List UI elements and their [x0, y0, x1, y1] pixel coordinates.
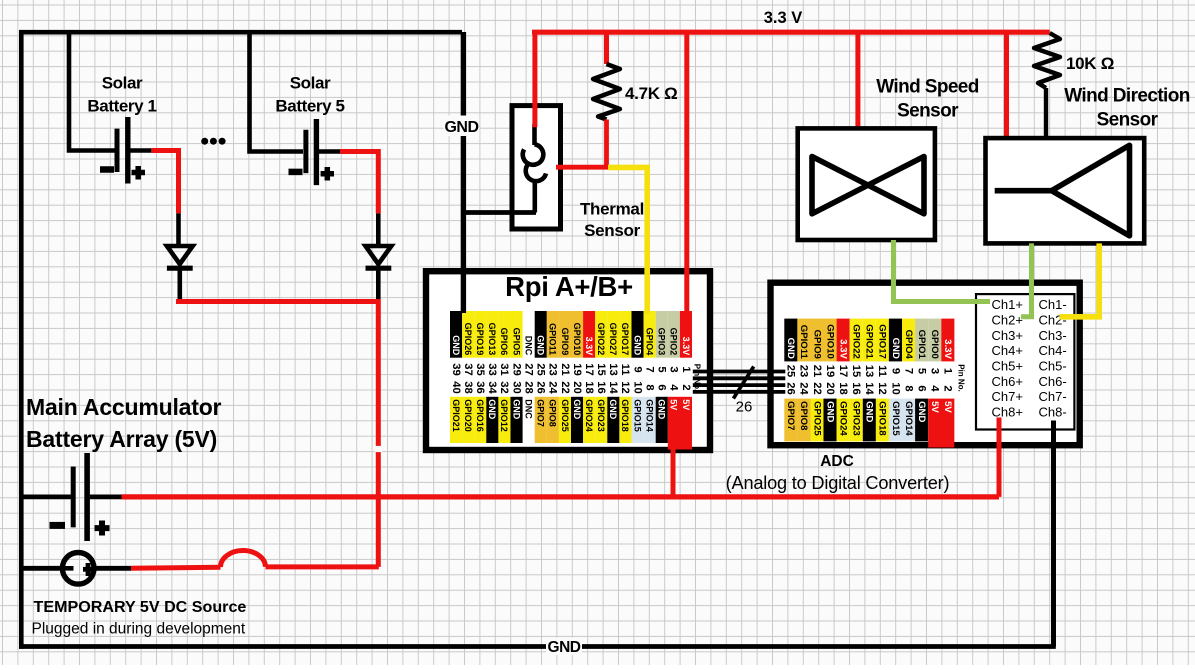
Rpi pin 37 GPIO26 block: [462, 311, 474, 358]
svg-text:GND: GND: [916, 401, 927, 422]
svg-text:GPIO24: GPIO24: [584, 399, 594, 432]
svg-text:ADC: ADC: [820, 453, 854, 470]
wire: rail drop to 4.7K resistor (red): [604, 32, 609, 64]
svg-text:20: 20: [571, 381, 583, 393]
thermal sensor box: [512, 106, 561, 229]
svg-text:GND: GND: [608, 399, 618, 420]
wire: left border (negative bus): [19, 30, 24, 649]
svg-text:GND: GND: [487, 399, 497, 420]
Rpi pin 10 GPIO15 block: [632, 397, 644, 443]
wire: ADC Ch8- to GND bus (black): [1051, 421, 1056, 647]
ellipsis dots between solar batteries: [201, 138, 208, 145]
svg-text:21: 21: [559, 363, 571, 375]
Rpi pin 9 GND block: [632, 311, 644, 358]
svg-text:Ch7-: Ch7-: [1039, 389, 1067, 404]
wire: wind direction output (green) to ADC Ch2+: [1021, 243, 1032, 316]
Rpi pin 33 GPIO13 block: [486, 311, 498, 358]
svg-text:GPIO13: GPIO13: [487, 323, 497, 356]
svg-text:12: 12: [619, 381, 631, 393]
wire: top border (solar negative bus): [19, 30, 462, 35]
wire: solar battery 1 positive (red): [151, 151, 178, 214]
svg-text:GPIO3: GPIO3: [657, 328, 667, 356]
ADC pin 9 GND block: [889, 319, 902, 362]
svg-text:Ch4+: Ch4+: [992, 343, 1023, 358]
Rpi pin 30 GND block: [511, 397, 523, 443]
svg-text:34: 34: [486, 381, 498, 394]
svg-text:GPIO17: GPIO17: [877, 324, 888, 359]
svg-text:37: 37: [462, 363, 474, 375]
svg-text:3: 3: [929, 368, 941, 374]
svg-text:15: 15: [850, 365, 862, 377]
svg-text:Ch6-: Ch6-: [1039, 374, 1067, 389]
Rpi pin 20 GND block: [571, 397, 583, 443]
resistor R1 4.7K: [593, 64, 620, 120]
ADC pin 18 GPIO24 block: [837, 399, 850, 442]
svg-text:Wind Direction: Wind Direction: [1064, 86, 1189, 107]
svg-text:6: 6: [656, 384, 668, 390]
wire: solar bus down to 5V rail and temp source (red): [376, 299, 381, 567]
svg-text:22: 22: [559, 381, 571, 393]
Rpi pin 34 GND block: [486, 397, 498, 443]
svg-text:GPIO21: GPIO21: [864, 324, 875, 359]
ADC pin 6 GND block: [915, 399, 928, 442]
svg-text:GND: GND: [444, 119, 478, 136]
svg-text:32: 32: [498, 381, 510, 393]
svg-text:Sensor: Sensor: [584, 221, 641, 240]
svg-text:Ch8+: Ch8+: [992, 405, 1023, 420]
Rpi pin 24 GPIO8 block: [547, 397, 559, 443]
svg-text:8: 8: [643, 384, 655, 390]
svg-text:GPIO23: GPIO23: [596, 399, 606, 432]
svg-text:Solar: Solar: [290, 74, 331, 93]
svg-text:Battery 5: Battery 5: [275, 97, 344, 116]
Rpi pin 36 GPIO16 block: [474, 397, 486, 443]
wire: ADC Ch8+ to 5V rail (red): [997, 418, 1002, 497]
svg-text:GPIO19: GPIO19: [475, 323, 485, 356]
Rpi pin 23 GPIO11 block: [547, 311, 559, 358]
Rpi pin 31 GPIO6 block: [498, 311, 510, 358]
svg-text:5V: 5V: [669, 399, 679, 410]
svg-text:GPIO16: GPIO16: [475, 399, 485, 432]
wire: solar battery 5 negative drop: [250, 32, 304, 152]
svg-text:25: 25: [535, 363, 547, 375]
wire: 4.7K to thermal junction (red): [604, 120, 609, 168]
Rpi pin 4 5V block: [668, 397, 692, 450]
svg-text:31: 31: [498, 363, 510, 375]
ADC pin 11 GPIO17 block: [876, 319, 889, 362]
svg-text:9: 9: [631, 366, 643, 372]
svg-text:30: 30: [510, 381, 522, 393]
svg-text:GPIO11: GPIO11: [548, 323, 558, 355]
svg-text:Battery 1: Battery 1: [87, 97, 156, 116]
svg-text:35: 35: [474, 363, 486, 375]
ADC pin 16 GPIO23 block: [850, 399, 863, 442]
wire: bottom GND bus: [19, 644, 1056, 649]
svg-text:5V: 5V: [681, 399, 691, 410]
svg-text:GPIO8: GPIO8: [548, 399, 558, 427]
ADC pin 25 GND block: [784, 319, 797, 362]
svg-text:GPIO20: GPIO20: [463, 399, 473, 432]
Rpi pin 18 GPIO24 block: [583, 397, 595, 443]
diode D1: [167, 246, 193, 299]
Rpi pin 16 GPIO23 block: [595, 397, 607, 443]
svg-text:22: 22: [811, 382, 823, 394]
svg-text:38: 38: [462, 381, 474, 393]
label: main battery plus sign: [95, 521, 110, 536]
svg-text:19: 19: [824, 365, 836, 377]
svg-text:(Analog to Digital Converter): (Analog to Digital Converter): [726, 473, 950, 493]
svg-text:Sensor: Sensor: [1097, 110, 1159, 131]
svg-text:26: 26: [535, 381, 547, 393]
svg-text:13: 13: [863, 365, 875, 377]
svg-text:13: 13: [607, 363, 619, 375]
svg-text:5V: 5V: [929, 401, 940, 413]
svg-text:5V: 5V: [942, 401, 953, 413]
Rpi pin 3 GPIO2 block: [668, 311, 680, 358]
svg-text:GPIO18: GPIO18: [620, 399, 630, 432]
wind speed sensor bowtie symbol: [812, 157, 924, 214]
svg-text:Ch5-: Ch5-: [1039, 359, 1067, 374]
svg-text:GND: GND: [451, 335, 461, 356]
svg-text:DNC: DNC: [523, 336, 533, 356]
svg-text:1: 1: [680, 366, 692, 372]
ADC pin 22 GPIO25 block: [811, 399, 824, 442]
ADC pin 23 GPIO11 block: [797, 319, 810, 362]
wire: source output black stub: [94, 566, 131, 571]
svg-text:GPIO15: GPIO15: [890, 401, 901, 436]
wire: rail drop to wind speed sensor (red): [855, 32, 860, 128]
svg-text:GPIO5: GPIO5: [511, 328, 521, 356]
svg-text:20: 20: [824, 382, 836, 394]
svg-text:GPIO4: GPIO4: [903, 330, 914, 360]
svg-text:3.3V: 3.3V: [681, 337, 691, 356]
ADC pin 24 GPIO8 block: [797, 399, 810, 442]
svg-text:GPIO17: GPIO17: [620, 323, 630, 356]
ADC pin 15 GPIO22 block: [850, 319, 863, 362]
svg-text:3.3V: 3.3V: [584, 337, 594, 356]
battery Main Accumulator Array: [73, 453, 121, 541]
Rpi pin 7 GPIO4 block: [644, 311, 656, 358]
svg-text:GPIO14: GPIO14: [644, 399, 654, 432]
wire: thermal data into Rpi GPIO4 pin 7 (yellow): [608, 167, 647, 314]
svg-text:Ch7+: Ch7+: [992, 389, 1023, 404]
svg-text:11: 11: [619, 364, 631, 376]
svg-text:GPIO1: GPIO1: [916, 330, 927, 360]
svg-text:Thermal: Thermal: [580, 200, 644, 219]
svg-text:GND: GND: [864, 401, 875, 422]
Rpi pin 40 GPIO21 block: [450, 397, 462, 443]
svg-text:2: 2: [680, 384, 692, 390]
svg-text:Ch8-: Ch8-: [1039, 405, 1067, 420]
svg-text:Ch2+: Ch2+: [992, 313, 1023, 328]
svg-text:1: 1: [942, 368, 954, 374]
svg-text:GND: GND: [536, 335, 546, 356]
svg-text:Main Accumulator: Main Accumulator: [26, 394, 222, 420]
svg-text:Wind Speed: Wind Speed: [876, 76, 979, 97]
svg-text:GPIO10: GPIO10: [824, 324, 835, 359]
text: GND (top): [444, 116, 480, 137]
wire: rail drop into Rpi 3.3V pin 1 (red): [684, 32, 689, 316]
ADC pin 4 5V block: [928, 399, 954, 448]
svg-text:3.3 V: 3.3 V: [764, 9, 803, 27]
svg-text:2: 2: [942, 385, 954, 391]
svg-text:8: 8: [902, 385, 914, 391]
battery Solar Battery 1: [117, 117, 151, 184]
svg-text:9: 9: [889, 368, 901, 374]
svg-text:10: 10: [631, 381, 643, 393]
svg-text:GPIO23: GPIO23: [851, 401, 862, 436]
svg-text:GPIO26: GPIO26: [463, 323, 473, 356]
svg-text:GPIO11: GPIO11: [798, 325, 809, 360]
svg-text:Ch1-: Ch1-: [1039, 297, 1067, 312]
svg-text:26: 26: [785, 382, 797, 394]
Rpi pin 25 GND block: [535, 311, 547, 358]
svg-text:GPIO27: GPIO27: [608, 323, 618, 356]
Rpi pin 17 3.3V block: [583, 311, 595, 358]
svg-text:18: 18: [837, 382, 849, 394]
svg-text:40: 40: [450, 381, 462, 393]
svg-text:GPIO15: GPIO15: [632, 399, 642, 432]
svg-text:7: 7: [643, 366, 655, 372]
svg-text:Ch4-: Ch4-: [1039, 343, 1067, 358]
svg-text:GPIO22: GPIO22: [851, 324, 862, 359]
ADC pin 1 3.3V block: [941, 319, 954, 362]
wind direction sensor box: [986, 138, 1145, 243]
svg-text:12: 12: [876, 382, 888, 394]
Rpi pin 15 GPIO22 block: [595, 311, 607, 358]
svg-text:14: 14: [607, 381, 619, 394]
Rpi pin 22 GPIO25 block: [559, 397, 571, 443]
ADC pin 8 GPIO14 block: [902, 399, 915, 442]
svg-text:21: 21: [811, 365, 823, 377]
label: solar battery 1 minus sign: [100, 166, 114, 173]
svg-text:GPIO4: GPIO4: [644, 328, 654, 356]
svg-text:Rpi A+/B+: Rpi A+/B+: [505, 271, 633, 302]
Rpi pin 29 GPIO5 block: [511, 311, 523, 358]
svg-text:16: 16: [595, 381, 607, 393]
wire: diode outputs junction (red): [179, 299, 379, 302]
svg-text:GPIO22: GPIO22: [596, 323, 606, 356]
Rpi pin 26 GPIO7 block: [535, 397, 547, 443]
wind direction sensor vane symbol: [995, 188, 1052, 194]
label: main battery minus sign: [50, 522, 66, 529]
svg-text:GND: GND: [548, 639, 581, 656]
wire: solar battery 5 positive (red): [340, 152, 378, 214]
wire gap artifact on solar bus: [375, 446, 382, 452]
svg-text:23: 23: [798, 365, 810, 377]
ADC pin 10 GPIO15 block: [889, 399, 902, 442]
svg-text:Plugged in during development: Plugged in during development: [32, 621, 246, 638]
Rpi pin 11 GPIO17 block: [619, 311, 631, 358]
svg-text:GPIO0: GPIO0: [929, 330, 940, 359]
wire: left bus to temporary source: [21, 566, 62, 571]
svg-text:GPIO14: GPIO14: [903, 401, 914, 436]
thermal sensor element: [523, 124, 546, 213]
svg-text:4: 4: [668, 384, 680, 391]
ADC pin 12 GPIO18 block: [876, 399, 889, 442]
Rpi pin 35 GPIO19 block: [474, 311, 486, 358]
ADC pin 5 GPIO1 block: [915, 319, 928, 362]
svg-text:4.7K Ω: 4.7K Ω: [625, 84, 677, 103]
svg-text:24: 24: [547, 381, 559, 394]
svg-text:GPIO6: GPIO6: [499, 328, 509, 356]
svg-text:Sensor: Sensor: [897, 100, 959, 121]
svg-text:DNC: DNC: [523, 399, 533, 419]
svg-text:39: 39: [450, 363, 462, 375]
svg-text:GND: GND: [890, 338, 901, 359]
svg-text:Ch3+: Ch3+: [992, 328, 1023, 343]
Rpi pin 19 GPIO10 block: [571, 311, 583, 358]
svg-text:GPIO8: GPIO8: [798, 401, 809, 431]
wire: main 5V rail (red): [122, 494, 1000, 499]
Rpi pin 8 GPIO14 block: [644, 397, 656, 443]
ADC pin 17 3.3V block: [837, 319, 850, 362]
DC source plug symbol: [62, 553, 94, 585]
svg-text:Pin No.: Pin No.: [957, 364, 966, 392]
wire: 10K to wind direction sensor: [1044, 88, 1048, 138]
ADC pin 21 GPIO9 block: [811, 319, 824, 362]
svg-text:4: 4: [929, 385, 941, 392]
Rpi pin 39 GND block: [450, 311, 462, 358]
battery Solar Battery 5: [306, 119, 340, 185]
ADC pin 7 GPIO4 block: [902, 319, 915, 362]
wind speed sensor box: [798, 128, 935, 240]
Rpi pin 12 GPIO18 block: [619, 397, 631, 443]
wire: 3.3V rail (red): [532, 30, 1050, 35]
svg-text:GPIO25: GPIO25: [560, 399, 570, 432]
Rpi pin 14 GND block: [607, 397, 619, 443]
svg-text:15: 15: [595, 363, 607, 375]
svg-text:GPIO18: GPIO18: [877, 401, 888, 436]
svg-text:28: 28: [522, 381, 534, 393]
ADC pin 3 GPIO0 block: [928, 319, 941, 362]
svg-text:23: 23: [547, 363, 559, 375]
svg-text:18: 18: [583, 381, 595, 393]
bus slash marker: [733, 367, 753, 399]
svg-text:GPIO24: GPIO24: [838, 401, 849, 436]
ADC pin 26 GPIO7 block: [784, 399, 797, 442]
wire: GND drop from top bus into Rpi pin 39: [461, 32, 466, 313]
svg-text:36: 36: [474, 381, 486, 393]
svg-text:33: 33: [486, 363, 498, 375]
svg-text:29: 29: [510, 363, 522, 375]
svg-text:GPIO10: GPIO10: [572, 323, 582, 356]
Rpi pin 13 GPIO27 block: [607, 311, 619, 358]
wire: wind direction output (yellow) to ADC Ch2-: [1060, 243, 1100, 316]
svg-text:16: 16: [850, 382, 862, 394]
ADC box: [771, 283, 1080, 446]
label: solar battery 5 minus sign: [289, 169, 303, 176]
text: GND (bottom): [546, 638, 582, 656]
svg-text:GND: GND: [511, 399, 521, 420]
ADC pin 19 GPIO10 block: [824, 319, 837, 362]
Rpi pin 6 GND block: [656, 397, 668, 443]
svg-text:Battery Array (5V): Battery Array (5V): [26, 426, 217, 452]
wire: temporary 5V line (red) with open switch: [131, 567, 379, 568]
label: solar battery 5 plus sign: [321, 167, 334, 181]
svg-text:25: 25: [785, 365, 797, 377]
svg-text:GPIO9: GPIO9: [811, 330, 822, 359]
ADC channel terminal box: [976, 294, 1074, 429]
svg-text:Ch6+: Ch6+: [992, 374, 1023, 389]
svg-text:Ch5+: Ch5+: [992, 359, 1023, 374]
wire: thermal sensor output stub (red): [556, 165, 609, 170]
svg-text:11: 11: [876, 365, 888, 377]
svg-text:GPIO21: GPIO21: [451, 399, 461, 432]
svg-text:GND: GND: [572, 399, 582, 420]
ADC pin 20 GND block: [824, 399, 837, 442]
wire: diode D5 anode lead: [376, 213, 381, 246]
svg-text:17: 17: [837, 365, 849, 377]
svg-text:10K Ω: 10K Ω: [1066, 54, 1114, 73]
wire: diode D1 anode lead: [176, 213, 181, 246]
svg-text:7: 7: [902, 368, 914, 374]
wire: rail drop to thermal sensor (red): [532, 32, 537, 127]
wire: thermal sensor ground tie: [461, 210, 536, 215]
svg-text:6: 6: [915, 385, 927, 391]
Rpi pin 32 GPIO12 block: [498, 397, 510, 443]
svg-text:GND: GND: [824, 401, 835, 422]
Rpi pin 5 GPIO3 block: [656, 311, 668, 358]
Rpi A+/B+ box: [426, 271, 710, 450]
Rpi pin 1 3.3V block: [680, 311, 692, 358]
svg-text:GPIO2: GPIO2: [669, 328, 679, 356]
ADC pin 14 GND block: [863, 399, 876, 442]
svg-text:GPIO7: GPIO7: [536, 399, 546, 427]
svg-text:10: 10: [889, 382, 901, 394]
wire: left bus to main battery: [21, 494, 71, 499]
svg-text:GPIO7: GPIO7: [785, 401, 796, 430]
svg-text:GPIO25: GPIO25: [811, 401, 822, 436]
svg-text:19: 19: [571, 363, 583, 375]
svg-text:27: 27: [522, 363, 534, 375]
wire: rail drop to wind direction sensor (red): [1004, 32, 1009, 138]
bus: 26-wire ribbon between Rpi and ADC: [693, 370, 786, 374]
Rpi pin 21 GPIO9 block: [559, 311, 571, 358]
svg-text:3: 3: [668, 366, 680, 372]
svg-text:26: 26: [736, 399, 753, 416]
svg-text:5: 5: [656, 366, 668, 372]
diode D5: [366, 246, 392, 299]
label: solar battery 1 plus sign: [132, 166, 146, 180]
svg-text:14: 14: [863, 382, 875, 395]
svg-text:GND: GND: [632, 335, 642, 356]
svg-text:17: 17: [583, 363, 595, 375]
svg-text:Solar: Solar: [102, 74, 143, 93]
Rpi pin 38 GPIO20 block: [462, 397, 474, 443]
svg-text:GPIO12: GPIO12: [499, 399, 509, 432]
svg-text:5: 5: [915, 368, 927, 374]
svg-text:TEMPORARY 5V DC Source: TEMPORARY 5V DC Source: [34, 598, 247, 616]
svg-text:GND: GND: [785, 338, 796, 359]
svg-text:24: 24: [798, 382, 810, 395]
resistor R2 10K: [1034, 33, 1060, 88]
svg-text:Ch1+: Ch1+: [992, 297, 1023, 312]
svg-text:3.3V: 3.3V: [942, 339, 953, 359]
svg-text:GND: GND: [657, 399, 667, 420]
svg-text:GPIO9: GPIO9: [560, 328, 570, 356]
wire: solar battery 1 negative drop: [69, 32, 115, 151]
ADC pin 13 GPIO21 block: [863, 319, 876, 362]
wire: wind speed output (green) to ADC Ch1+: [894, 240, 991, 302]
svg-text:Ch3-: Ch3-: [1039, 328, 1067, 343]
switch: fuse arc on temporary line: [220, 551, 265, 568]
svg-text:3.3V: 3.3V: [838, 339, 849, 359]
wire: Rpi 5V pin to main rail (red): [671, 441, 676, 497]
